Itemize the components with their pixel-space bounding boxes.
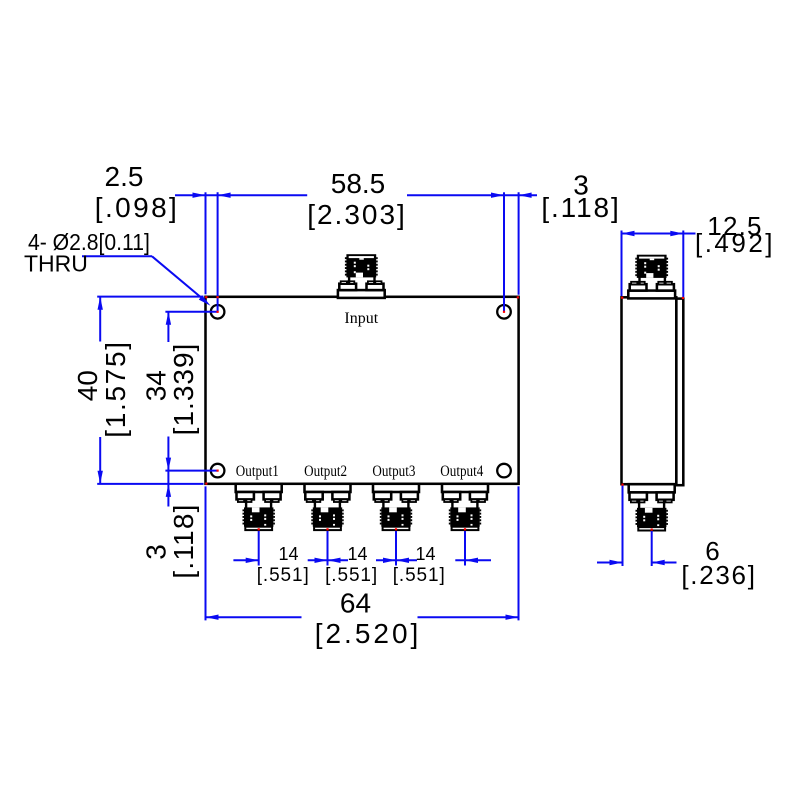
extension line hole bottom-left horizontal [165,470,217,472]
connector flange [338,290,385,298]
connector end cap [383,527,410,530]
connector threaded barrel [637,508,666,527]
svg-text:[.118]: [.118] [541,192,620,223]
svg-text:[2.303]: [2.303] [307,199,407,230]
connector flange [373,484,419,492]
bottom-left dimension line 3 [167,471,169,507]
output pitch dimension lines 14 [233,559,258,561]
svg-text:58.5: 58.5 [331,168,386,199]
side view dimension line 12.5 [622,233,696,235]
svg-text:Output3: Output3 [372,463,415,480]
front view body outline [206,297,519,484]
svg-text:14: 14 [278,544,298,564]
connector end cap [638,527,665,530]
svg-text:Output4: Output4 [440,463,484,480]
connector end cap [245,527,272,530]
mounting hole bottom-right [497,464,511,478]
svg-text:[2.520]: [2.520] [315,618,422,649]
connector legs [314,500,316,508]
svg-text:14: 14 [347,544,367,564]
output 2 center line [327,531,329,566]
connector flange [628,291,675,299]
connector flange [236,484,282,492]
left dimension line 34 [167,312,169,342]
connector threaded barrel [346,254,376,277]
svg-text:THRU: THRU [24,251,88,277]
extension line hole top-left horizontal [165,311,217,313]
connector hex nuts [374,492,391,499]
extension line body bottom [97,483,203,485]
bottom dimension line 64 [206,616,302,618]
left dimension line 40 [99,297,101,342]
connector threaded barrel [244,507,273,526]
side view body outline [622,297,677,484]
connector threaded barrel [313,507,342,526]
connector flange [629,484,675,492]
connector hex nuts [630,284,647,290]
connector hex nuts [305,492,322,499]
side view cover plate [676,299,683,486]
side connector center line [651,531,653,566]
connector legs [245,500,247,508]
connector hex nuts [237,492,254,499]
svg-text:Input: Input [344,310,378,327]
svg-text:2.5: 2.5 [105,161,144,192]
connector flange [442,484,488,492]
connector legs [451,500,453,508]
connector end cap [452,527,479,530]
svg-text:64: 64 [340,588,371,619]
connector threaded barrel [637,255,667,278]
svg-text:40: 40 [72,370,103,401]
connector legs [638,500,640,508]
output 4 center line [464,531,466,566]
mounting hole bottom-left [211,464,225,478]
svg-text:[.551]: [.551] [393,565,446,586]
connector flange [305,484,351,492]
connector hex nuts [443,492,460,499]
extension line body bottom-right corner [518,486,520,620]
connector threaded barrel [381,507,410,526]
mounting hole top-right [497,305,511,319]
extension line body left edge [205,192,207,294]
extension line side cover right [682,231,684,298]
side view dimension line 6 [597,562,623,564]
connector end cap [314,527,341,530]
hole callout leader [82,255,152,257]
connector threaded barrel [450,507,479,526]
svg-text:[.118]: [.118] [168,503,199,578]
extension line body bottom-left corner [205,486,207,620]
output 3 center line [395,531,397,566]
output 1 center line [258,531,260,566]
extension line hole top-left center [217,192,219,311]
connector legs [382,500,384,508]
extension line hole top-right center [503,192,505,311]
connector legs [638,277,640,284]
svg-text:3: 3 [140,544,171,560]
connector hex nuts [630,492,647,499]
extension line body right edge [518,192,520,294]
extension line side box bottom-left [622,485,624,566]
svg-text:[.551]: [.551] [257,565,310,586]
svg-text:[1.339]: [1.339] [168,343,199,436]
connector legs [348,277,350,284]
svg-text:14: 14 [415,544,435,564]
svg-text:Output2: Output2 [304,463,347,480]
svg-text:[.098]: [.098] [95,192,179,223]
dimension anchor dots [205,296,207,298]
mounting hole top-left [211,305,225,319]
extension line body top [97,296,203,298]
svg-text:[1.575]: [1.575] [100,340,131,438]
connector hex nuts [339,284,356,290]
svg-text:[.492]: [.492] [695,228,775,258]
svg-text:34: 34 [140,370,171,401]
top dimension line (2.5 / 58.5 / 3) [175,194,307,196]
svg-text:Output1: Output1 [236,463,279,480]
extension line side box left [621,231,623,297]
svg-text:[.236]: [.236] [681,560,756,590]
svg-text:[.551]: [.551] [325,565,378,586]
